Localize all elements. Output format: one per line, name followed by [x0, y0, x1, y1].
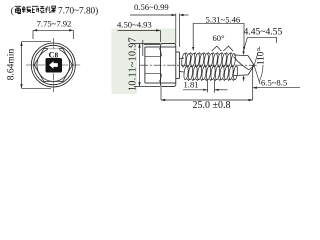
svg-text:5.31~5.46: 5.31~5.46	[206, 14, 241, 24]
svg-text:(: (	[11, 5, 14, 15]
svg-text:0.56~0.99: 0.56~0.99	[134, 2, 169, 12]
svg-text:7.75~7.92: 7.75~7.92	[37, 18, 72, 28]
svg-text:4.50~4.93: 4.50~4.93	[117, 19, 152, 29]
svg-text:25.0 ±0.8: 25.0 ±0.8	[193, 100, 231, 111]
svg-text:110°: 110°	[256, 48, 267, 66]
svg-text:6.5~8.5: 6.5~8.5	[261, 78, 287, 88]
svg-text:10.11~10.97: 10.11~10.97	[128, 37, 139, 91]
svg-text:60°: 60°	[213, 33, 226, 43]
svg-text:1.81: 1.81	[184, 79, 199, 89]
svg-text:7.70~7.80): 7.70~7.80)	[58, 5, 98, 15]
svg-text:4.45~4.55: 4.45~4.55	[244, 26, 283, 37]
svg-text:C8: C8	[49, 49, 59, 59]
svg-text:8.64min: 8.64min	[7, 49, 17, 81]
